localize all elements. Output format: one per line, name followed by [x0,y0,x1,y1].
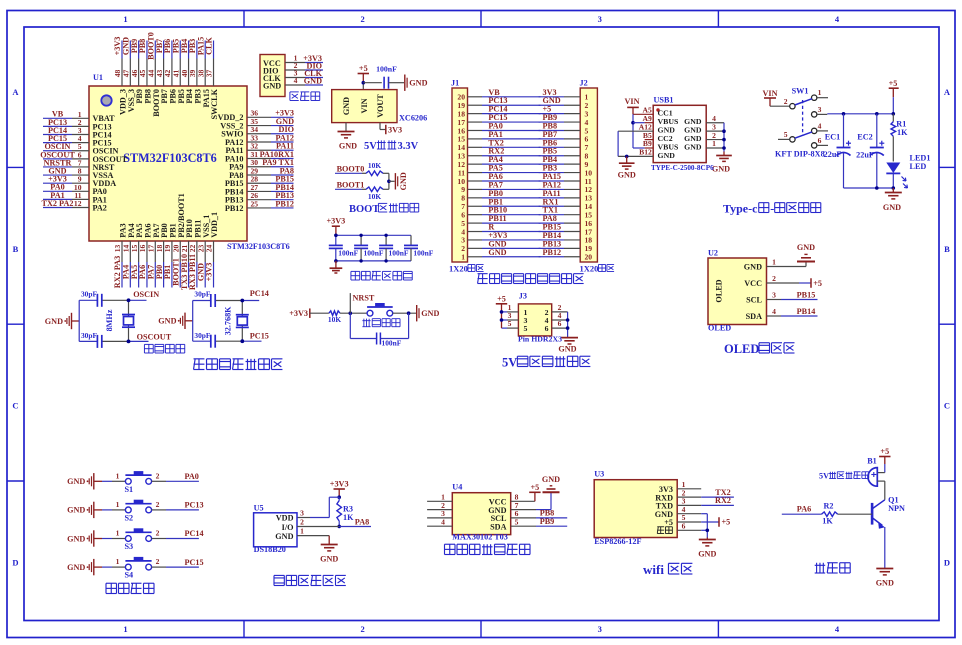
mcu right pin 34 SWIO wire [247,133,271,135]
caption MCU pin breakout headers [478,273,488,275]
svg-text:XC6206: XC6206 [399,114,427,123]
power +5 symbol rail [889,87,899,89]
mcu right pin 30 PA9 wire [247,166,271,168]
left vertical wire [192,301,194,342]
oled pin1 wire to gnd [767,266,807,268]
wifi right pin 6 wire [677,529,701,531]
svg-text:RX2: RX2 [715,496,731,505]
svg-text:+5: +5 [880,447,889,456]
svg-text:1X20: 1X20 [449,264,468,274]
switch SW1 pin 6 contact [812,143,817,148]
mcu right pin 28 PB15 wire [247,182,271,184]
button S4 wire right [152,566,166,568]
frame column divider [480,11,482,28]
power VIN bar [627,106,639,108]
mcu left pin 11 PA1 wire [43,198,72,200]
svg-text:U3: U3 [594,470,604,479]
bottom wire [79,340,97,342]
mcu bottom pin 20 PB2/BOOT1 wire [179,241,181,262]
gnd power port reset [416,305,418,321]
svg-text:A: A [944,87,951,97]
svg-text:BOOT0: BOOT0 [337,164,365,173]
mcu left pin 4 PC15 wire [43,142,72,144]
oled pin4 wire PB14 [767,315,782,317]
junction node [387,180,391,184]
svg-text:S3: S3 [125,542,134,551]
svg-text:GND: GND [263,81,281,90]
svg-text:+3V3: +3V3 [289,309,308,318]
mcu top pin 42 PB6 wire [171,41,173,59]
svg-text:GND: GND [744,263,762,272]
svg-text:PC13: PC13 [185,501,204,510]
svg-text:OLED: OLED [708,324,731,333]
svg-text:J2: J2 [580,79,588,88]
svg-text:B: B [13,244,19,254]
oled pin2 wire to +5 [767,282,800,284]
svg-text:6: 6 [818,136,822,145]
header J3 body HDR2X3 [518,304,551,336]
power +5 symbol [358,73,369,75]
mcu bottom pin 19 PB1 wire [171,241,173,262]
svg-text:PC14: PC14 [185,529,204,538]
svg-text:1: 1 [116,471,120,480]
header J2 pin 18 wire [539,239,564,241]
svg-text:GND: GND [421,309,439,318]
bottom wire [193,340,211,342]
svg-text:STM32F103C8T6: STM32F103C8T6 [227,242,290,251]
mcu bottom pin 13 PA3 wire [121,241,123,262]
svg-text:4: 4 [441,517,445,526]
junction node io [337,525,341,529]
svg-text:GND: GND [275,532,293,541]
mcu bottom pin 23 VSS_1 wire [204,241,206,262]
usb A9 wire [633,122,645,124]
svg-text:SW1: SW1 [792,87,809,96]
mcu pin-1 marker [101,95,111,105]
capacitor 30pF top [210,294,212,307]
svg-text:GND: GND [883,203,901,212]
usb gnd junction [625,155,629,159]
svg-text:NRST: NRST [353,293,375,302]
usb B12 gnd wire [618,155,653,157]
button S3 wire left [94,538,102,540]
svg-text:100nF: 100nF [389,248,409,257]
wifi right pin 3 wire [677,504,701,506]
header J1 pin 1 wire [468,256,483,258]
usb pin1 dot marker [656,108,659,111]
svg-text:EC2: EC2 [857,133,872,142]
wire +5 to buzzer [884,464,886,473]
svg-text:R2: R2 [823,501,833,510]
mcu left pin 3 PC14 wire [43,134,72,136]
mcu bottom pin 22 PB11 wire [196,241,198,262]
j3 left pin 1 wire [502,311,508,313]
svg-text:U2: U2 [708,249,718,258]
wifi earth ground [706,538,708,540]
caption MCU minimal system [194,358,205,360]
svg-text:MAX30102 T03: MAX30102 T03 [452,533,508,542]
header J1 pin 5 wire [468,222,483,224]
svg-text:TX2 PA2: TX2 PA2 [42,199,74,208]
mcu top pin 37 SWCLK wire [213,41,215,59]
switch arm 2-1 [795,99,812,105]
svg-text:SWCLK: SWCLK [210,88,219,119]
svg-text:2: 2 [360,14,364,24]
header J2 pin 12 wire [539,188,564,190]
download port connector body [260,55,285,97]
svg-text:10K: 10K [328,315,341,324]
wire junction to gnd [389,180,395,182]
mcu top pin 46 PB9 wire [138,41,140,59]
mcu bottom pin 21 PB10 wire [188,241,190,262]
capacitor 100nF [383,77,385,89]
svg-text:PB12: PB12 [225,204,244,213]
svg-text:1: 1 [116,500,120,509]
header J2 body 1X20 [580,88,597,262]
svg-text:TYPE-C-2500-8CP6: TYPE-C-2500-8CP6 [651,164,714,172]
header J1 pin 19 wire [468,104,483,106]
svg-text:2: 2 [156,500,160,509]
svg-text:+3V3: +3V3 [327,216,346,225]
usb vin bus wire [632,114,634,148]
svg-text:1: 1 [712,139,716,148]
wifi pin5 wire +5 [701,521,719,523]
header J2 pin 3 wire [539,113,564,115]
svg-text:S4: S4 [125,571,134,580]
wire resistors to junction [383,172,389,174]
wire +5 to VIN [362,74,364,83]
svg-text:100nF: 100nF [364,248,384,257]
svg-text:4: 4 [772,307,776,316]
svg-text:ESP8266-12F: ESP8266-12F [594,537,641,546]
mcu bottom pin 14 PA4 wire [129,241,131,262]
wire +3V3 to VDD [329,496,339,498]
header J1 pin 8 wire [468,197,483,199]
mcu top pin 47 VSS_3 wire [129,41,131,59]
svg-text:STM32F103C8T6: STM32F103C8T6 [123,151,216,165]
download port pin 1 wire [285,62,305,64]
switch pin5 wire [778,138,790,140]
oled U2 body [708,258,767,325]
svg-text:B1: B1 [867,457,877,466]
mcu top pin 38 PA15 wire [204,41,206,59]
svg-text:1K: 1K [343,513,354,522]
svg-text:5: 5 [515,517,519,526]
header J2 pin 13 wire [539,197,564,199]
svg-text:J3: J3 [519,291,527,300]
mcu bottom pin 18 PB0 wire [163,241,165,262]
svg-text:OLED: OLED [715,279,724,302]
mcu right pin 31 PA10 wire [247,158,271,160]
svg-text:3: 3 [598,14,602,24]
switch SW1 pin 3 contact [812,112,817,117]
svg-text:1: 1 [461,253,465,262]
switch pin1 wire [817,97,828,99]
svg-text:37: 37 [205,70,214,78]
wire VIN to sw pin2 [770,105,790,107]
svg-text:+5: +5 [359,64,368,73]
power +3V3 symbol [332,225,340,227]
header J2 pin 6 wire [539,138,564,140]
header J1 body 1X20 [452,88,468,262]
j3 right pin 2 wire [552,311,568,313]
svg-text:100nF: 100nF [376,65,397,74]
wire io to PA8 [297,526,339,528]
svg-text:VDD: VDD [276,514,294,523]
svg-text:NPN: NPN [888,504,905,513]
svg-text:GND: GND [618,171,636,180]
header J1 pin 20 wire [468,96,483,98]
svg-text:32.768K: 32.768K [224,306,233,336]
capacitor 30pF bottom [210,335,212,348]
svg-text:PA0: PA0 [185,472,199,481]
wifi U3 ESP8266 body [594,480,677,538]
caption temperature module [274,574,284,576]
svg-text:VIN: VIN [624,97,639,106]
svg-text:2: 2 [784,97,788,106]
svg-text:4: 4 [818,121,822,130]
capacitor 30pF top [96,294,98,307]
j3 left bus [501,304,503,328]
caption xiazaikou [290,91,299,93]
header J2 pin 9 wire [539,163,564,165]
svg-text:D: D [12,557,18,567]
svg-text:GND: GND [488,248,506,257]
wire BOOT1 [335,188,362,190]
button S1 wire left [94,480,102,482]
svg-text:2: 2 [772,274,776,283]
mcu top pin 44 BOOT0 wire [154,41,156,59]
svg-text:6: 6 [682,522,686,531]
caption crystal circuit [144,343,153,345]
svg-text:SDA: SDA [746,312,762,321]
svg-text:Pin HDR2X3: Pin HDR2X3 [518,334,562,343]
header J1 pin 7 wire [468,205,483,207]
svg-text:3: 3 [818,105,822,114]
header J2 pin 16 wire [539,222,564,224]
mcu top pin 48 VDD_3 wire [121,41,123,59]
svg-text:EC1: EC1 [825,132,840,141]
rail bottom bus wire [844,187,894,189]
filter top bus wire [336,234,411,236]
wire to resistor [310,312,329,314]
header J1 pin 16 wire [468,129,483,131]
header J1 pin 14 wire [468,146,483,148]
resistor R2 1K [822,512,838,517]
svg-text:GND: GND [67,563,85,572]
button S3 [125,531,151,533]
transistor Q1 NPN [871,503,874,525]
svg-text:wifi: wifi [643,562,664,577]
resistor R3 1K [338,497,340,500]
wifi pin3 wire RX2 [701,504,734,506]
led arrows [902,177,908,189]
mcu left pin 7 NRST wire [43,166,72,168]
download port pin 3 wire [285,77,305,79]
wifi right pin 5 wire [677,521,701,523]
svg-text:PB12: PB12 [543,248,562,257]
svg-text:OSCIN: OSCIN [133,290,159,299]
wire +3V3 to bus [335,226,337,235]
svg-text:PA2: PA2 [93,203,107,212]
svg-text:U4: U4 [452,482,462,491]
svg-text:5V: 5V [819,472,829,481]
usb right bus wire [723,123,725,152]
svg-text:+3V3: +3V3 [205,263,214,282]
svg-text:10K: 10K [368,161,381,170]
junction node nrst [349,311,353,315]
svg-text:6: 6 [558,319,562,328]
button S4 [125,560,151,562]
svg-text:2: 2 [360,624,364,634]
svg-text:SCL: SCL [746,296,762,305]
junction at +3V3 top [334,234,338,238]
power 3V3 tap [385,125,387,135]
svg-text:3V3: 3V3 [388,125,402,134]
wifi pin2 wire TX2 [701,496,734,498]
power VIN bar sw [764,97,776,99]
svg-text:2: 2 [156,529,160,538]
svg-text:5: 5 [508,319,512,328]
j3 left pin 5 wire [502,327,508,329]
usb A12 gnd wire [618,130,653,132]
mcu right pin 26 PB13 wire [247,199,271,201]
filter capacitor C2 100nF [360,235,362,245]
buzzer earth ground [876,568,893,570]
max30102 left pin 1 wire [427,500,452,502]
sensor U4 MAX30102 body [452,493,510,535]
header J2 pin 11 wire [539,180,564,182]
svg-text:U5: U5 [254,504,264,513]
svg-text:B: B [944,244,950,254]
top wire [79,299,97,301]
mcu bottom pin 16 PA6 wire [146,241,148,262]
svg-text:GND: GND [67,477,85,486]
junction node [337,495,341,499]
mcu top pin 39 PB3 wire [196,41,198,59]
usb gnd bus wire [617,131,619,156]
svg-text:S1: S1 [125,485,134,494]
j3 right bus [567,312,569,337]
caption reset circuit [362,320,370,322]
svg-text:PB15: PB15 [797,290,816,299]
reset button [367,306,393,308]
svg-text:5V: 5V [364,141,377,152]
max30102 left pin 3 wire [427,517,452,519]
svg-text:PC15: PC15 [250,332,269,341]
mcu left pin 10 PA0 wire [43,190,72,192]
caption buzzer [815,564,826,566]
svg-text:+3V3: +3V3 [330,480,349,489]
NRST stub wire [349,293,351,313]
wire to capacitor [363,82,382,84]
svg-text:S2: S2 [125,513,134,522]
svg-text:100nF: 100nF [382,339,402,348]
svg-text:1: 1 [123,14,127,24]
svg-text:1: 1 [123,624,127,634]
header J2 pin 20 wire [539,256,564,258]
max30102 gnd earth above [543,491,560,493]
switch pin4 wire [817,130,828,132]
max30102 vcc wire to +5 [511,500,535,502]
svg-text:VIN: VIN [762,89,777,98]
j3 right pin 6 wire [552,327,568,329]
mcu left pin 12 PA2 wire [43,207,72,209]
wire VIN to A5 CC1 [633,113,653,115]
button S1 [125,474,151,476]
max30102 gnd wire [511,509,536,511]
capacitor 100nF reset [376,333,378,345]
header J2 pin 5 wire [539,129,564,131]
svg-text:PC15: PC15 [185,558,204,567]
capacitor 30pF bottom [96,335,98,348]
switch SW1 pin 1 contact [812,95,817,100]
caption chip filter caps [351,270,360,272]
wifi right pin 4 wire [677,513,701,515]
button S2 wire right [152,509,166,511]
mcu top pin 41 PB5 wire [179,41,181,59]
oled pin3 wire PB15 [767,299,782,301]
wire GND pin down [345,123,347,132]
header J2 pin 4 wire [539,121,564,123]
svg-text:Type-c: Type-c [723,202,758,216]
svg-text:3.3V: 3.3V [397,141,418,152]
svg-text:PC14: PC14 [250,289,269,298]
switch SW1 pin 4 contact [812,128,817,133]
svg-text:B12: B12 [639,148,652,157]
header J1 pin 12 wire [468,163,483,165]
wifi right pin 2 wire [677,496,701,498]
mcu right pin 33 PA12 wire [247,141,271,143]
header J2 pin 10 wire [539,172,564,174]
svg-text:5: 5 [524,324,528,333]
oled gnd earth above [797,261,815,263]
svg-text:5V: 5V [502,356,517,370]
svg-text:DS18B20: DS18B20 [254,545,286,554]
svg-text:GND: GND [797,243,815,252]
svg-text:1: 1 [818,88,822,97]
svg-text:BOOT1: BOOT1 [337,180,365,189]
svg-text:2: 2 [300,518,304,527]
svg-text:+5: +5 [722,518,731,527]
svg-text:GND: GND [558,345,576,354]
wifi pin4 gnd wire [701,513,707,515]
svg-text:24: 24 [205,245,214,253]
mcu left pin 5 OSCIN wire [43,150,72,152]
svg-text:CLK: CLK [205,37,214,55]
svg-text:100nF: 100nF [338,248,358,257]
svg-text:PA8: PA8 [355,517,369,526]
svg-text:22uF: 22uF [856,151,874,160]
svg-text:25: 25 [251,199,259,208]
header J2 pin 1 wire [539,96,564,98]
svg-text:A: A [12,87,19,97]
junction node wifi [706,529,710,533]
top wire [193,300,211,302]
svg-text:PB9: PB9 [540,517,555,526]
reset capacitor branch wire [349,313,351,338]
mcu bottom pin 15 PA5 wire [138,241,140,262]
switch arm 5-4 [795,132,812,138]
switch SW1 pin 2 contact [790,104,795,109]
svg-text:C: C [944,401,950,411]
svg-text:GND: GND [658,151,676,160]
svg-text:+5: +5 [813,279,822,288]
switch pin6 wire [817,144,828,146]
svg-text:3: 3 [300,509,304,518]
svg-text:6: 6 [545,324,549,333]
switch pin3 wire [817,113,827,115]
